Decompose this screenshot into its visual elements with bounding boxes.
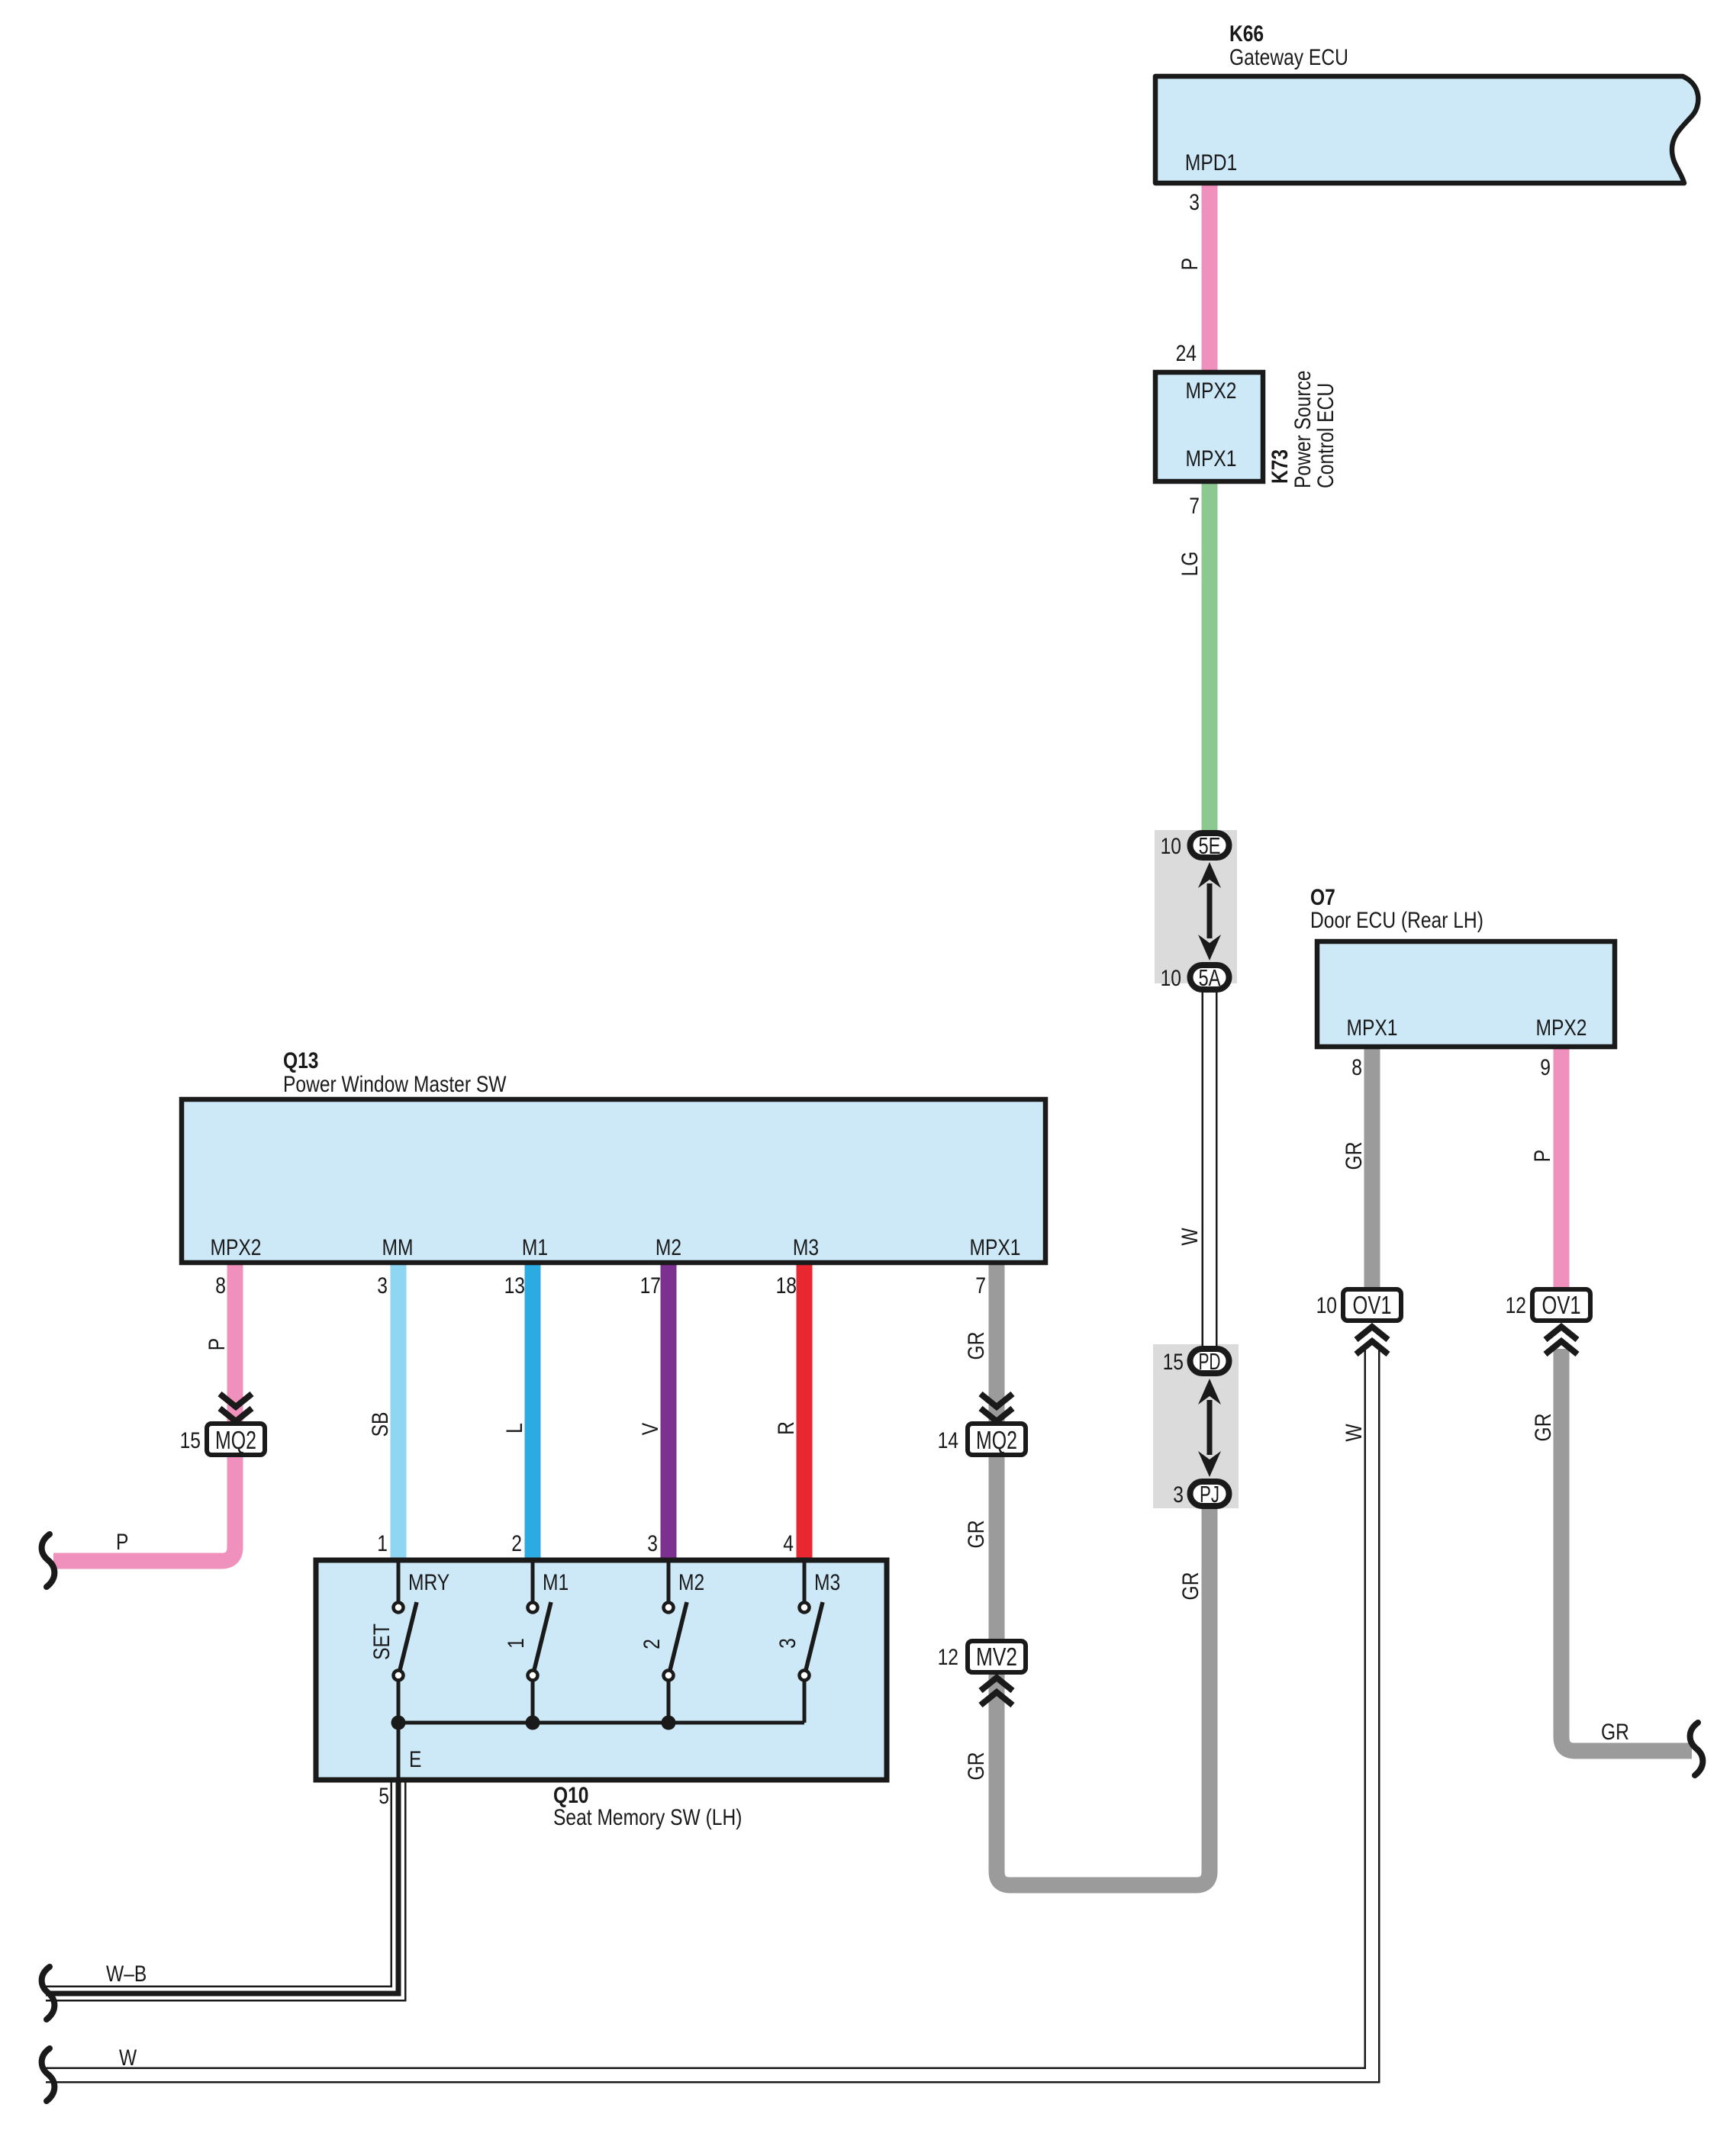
junction block shield PD/PJ bbox=[1153, 1344, 1239, 1508]
svg-text:M3: M3 bbox=[814, 1570, 840, 1595]
svg-text:7: 7 bbox=[1189, 494, 1200, 519]
svg-text:Power Window Master SW: Power Window Master SW bbox=[283, 1072, 507, 1097]
ECU O7 Door ECU (Rear LH) bbox=[1310, 885, 1615, 1047]
svg-text:MQ2: MQ2 bbox=[976, 1426, 1017, 1454]
svg-text:PJ: PJ bbox=[1200, 1481, 1219, 1508]
svg-text:8: 8 bbox=[215, 1273, 226, 1298]
connector MQ2 pin 14 bbox=[938, 1424, 1026, 1455]
svg-text:1: 1 bbox=[504, 1638, 529, 1649]
svg-text:1: 1 bbox=[377, 1531, 388, 1556]
svg-text:3: 3 bbox=[377, 1273, 388, 1298]
svg-text:24: 24 bbox=[1176, 341, 1197, 366]
svg-text:P: P bbox=[1177, 258, 1203, 270]
ECU K66 Gateway ECU (box with torn right edge) bbox=[1155, 21, 1698, 183]
svg-text:10: 10 bbox=[1161, 966, 1181, 991]
break squiggle W-B left bbox=[42, 1967, 55, 2019]
svg-text:3: 3 bbox=[647, 1531, 658, 1556]
svg-text:GR: GR bbox=[964, 1520, 989, 1549]
wire GR junction PJ-3 down, left, up to MV2 (U path) bbox=[997, 1263, 1210, 1885]
svg-text:MPX1: MPX1 bbox=[1186, 446, 1237, 471]
connector OV1 pin 10 bbox=[1316, 1289, 1401, 1321]
double-head arrow between PD and PJ bbox=[1198, 1379, 1221, 1477]
wire W junction 5A to junction PD bbox=[1202, 986, 1218, 1352]
svg-text:MV2: MV2 bbox=[976, 1643, 1017, 1671]
svg-text:MM: MM bbox=[382, 1235, 414, 1260]
svg-text:GR: GR bbox=[1178, 1572, 1203, 1601]
svg-text:12: 12 bbox=[1506, 1293, 1526, 1318]
break squiggle P left bbox=[42, 1534, 55, 1587]
svg-text:O7: O7 bbox=[1310, 885, 1335, 910]
svg-text:3: 3 bbox=[1189, 190, 1200, 215]
svg-text:14: 14 bbox=[938, 1428, 958, 1453]
svg-text:MPX1: MPX1 bbox=[970, 1235, 1021, 1260]
svg-text:13: 13 bbox=[504, 1273, 525, 1298]
svg-text:K73: K73 bbox=[1268, 449, 1293, 484]
chevrons out of MV2 (pointing up) bbox=[981, 1678, 1013, 1705]
svg-text:MPX1: MPX1 bbox=[1347, 1015, 1398, 1041]
svg-text:E: E bbox=[409, 1747, 421, 1772]
wire W-B Q10 E-5 down and left to break bbox=[46, 1780, 398, 1993]
ECU Q13 Power Window Master SW bbox=[182, 1048, 1045, 1263]
connector oval PJ pin 3 bbox=[1173, 1481, 1229, 1508]
svg-text:5A: 5A bbox=[1199, 964, 1221, 991]
switch 1 (M1) bbox=[504, 1560, 569, 1723]
chevrons into MQ2 pin 14 (pointing down) bbox=[981, 1394, 1013, 1421]
svg-text:MRY: MRY bbox=[408, 1570, 449, 1595]
svg-text:OV1: OV1 bbox=[1353, 1291, 1392, 1319]
break squiggle W bottom left bbox=[42, 2048, 55, 2101]
svg-text:P: P bbox=[116, 1530, 128, 1555]
double-head arrow between 5E and 5A bbox=[1198, 862, 1221, 961]
svg-text:Power Source: Power Source bbox=[1290, 371, 1316, 489]
junction node at M2 bbox=[662, 1716, 676, 1730]
chevrons out of OV1 pin 12 (pointing up) bbox=[1545, 1327, 1577, 1354]
switch assembly Q10 Seat Memory SW (LH) bbox=[316, 1560, 887, 1830]
wire SB Q13 MM-3 to Q10 pin1 bbox=[391, 1263, 407, 1560]
svg-text:W: W bbox=[1342, 1424, 1367, 1442]
svg-text:Seat Memory SW (LH): Seat Memory SW (LH) bbox=[553, 1805, 742, 1830]
svg-text:5E: 5E bbox=[1199, 832, 1221, 859]
svg-text:W: W bbox=[119, 2045, 137, 2071]
svg-text:MQ2: MQ2 bbox=[215, 1426, 256, 1454]
internal bus wire E bbox=[398, 1721, 804, 1725]
svg-text:GR: GR bbox=[964, 1332, 989, 1360]
junction node at M1 bbox=[526, 1716, 540, 1730]
svg-text:MPX2: MPX2 bbox=[1186, 378, 1237, 404]
svg-text:GR: GR bbox=[964, 1752, 989, 1781]
svg-text:M2: M2 bbox=[678, 1570, 704, 1595]
junction block shield 5E/5A bbox=[1155, 830, 1237, 983]
svg-text:GR: GR bbox=[1342, 1142, 1367, 1170]
svg-text:Control ECU: Control ECU bbox=[1313, 383, 1338, 488]
svg-text:P: P bbox=[1530, 1150, 1555, 1162]
svg-text:GR: GR bbox=[1531, 1414, 1556, 1442]
svg-text:8: 8 bbox=[1351, 1055, 1362, 1080]
svg-text:2: 2 bbox=[639, 1639, 665, 1649]
svg-text:15: 15 bbox=[1163, 1350, 1184, 1375]
svg-text:10: 10 bbox=[1161, 834, 1181, 859]
connector OV1 pin 12 bbox=[1506, 1289, 1590, 1321]
svg-text:15: 15 bbox=[180, 1428, 201, 1453]
svg-text:PD: PD bbox=[1199, 1348, 1221, 1375]
wire L Q13 M1-13 to Q10 pin2 bbox=[525, 1263, 541, 1560]
break squiggle GR right bbox=[1690, 1723, 1703, 1775]
svg-text:Gateway ECU: Gateway ECU bbox=[1229, 45, 1348, 70]
svg-text:Q13: Q13 bbox=[283, 1048, 319, 1073]
ECU K73 Power Source Control ECU bbox=[1155, 371, 1338, 489]
wire P Q13 MPX2-8 down through MQ2-15, left to break bbox=[53, 1263, 235, 1561]
wire W OV1-10 down and left to break bbox=[46, 1350, 1372, 2075]
svg-text:OV1: OV1 bbox=[1542, 1291, 1581, 1319]
connector oval 5E pin 10 bbox=[1161, 832, 1229, 859]
svg-text:SET: SET bbox=[369, 1623, 395, 1660]
svg-text:K66: K66 bbox=[1229, 21, 1264, 47]
wire P K66 MPD1-3 to K73 MPX2-24 bbox=[1202, 185, 1218, 372]
svg-text:M2: M2 bbox=[656, 1235, 681, 1260]
svg-text:3: 3 bbox=[775, 1638, 801, 1649]
svg-text:MPD1: MPD1 bbox=[1185, 150, 1237, 175]
svg-text:GR: GR bbox=[1601, 1720, 1629, 1745]
wire R Q13 M3-18 to Q10 pin4 bbox=[797, 1263, 813, 1560]
wire E down to pin 5 bbox=[397, 1723, 401, 1780]
wire GR O7 MPX1-8 to OV1-10 bbox=[1364, 1047, 1380, 1289]
svg-text:18: 18 bbox=[776, 1273, 797, 1298]
wire GR OV1-12 down and right to break bbox=[1561, 1349, 1692, 1751]
svg-text:V: V bbox=[638, 1423, 663, 1435]
svg-text:L: L bbox=[502, 1423, 527, 1434]
svg-text:4: 4 bbox=[783, 1531, 794, 1556]
connector MV2 pin 12 bbox=[938, 1641, 1026, 1672]
svg-text:W: W bbox=[1177, 1228, 1203, 1246]
svg-text:2: 2 bbox=[511, 1531, 522, 1556]
switch 3 (M3) bbox=[775, 1560, 840, 1723]
connector oval 5A pin 10 bbox=[1161, 964, 1229, 991]
svg-text:W–B: W–B bbox=[106, 1961, 147, 1987]
svg-text:R: R bbox=[774, 1421, 799, 1435]
connector oval PD pin 15 bbox=[1163, 1348, 1229, 1375]
svg-text:5: 5 bbox=[379, 1784, 389, 1809]
svg-text:9: 9 bbox=[1540, 1055, 1551, 1080]
wire LG K73 MPX1-7 to junction 5E bbox=[1202, 481, 1218, 839]
switch 2 (M2) bbox=[639, 1560, 704, 1723]
svg-text:Door ECU (Rear LH): Door ECU (Rear LH) bbox=[1310, 908, 1483, 933]
svg-text:12: 12 bbox=[938, 1645, 958, 1670]
chevrons out of OV1 pin 10 (pointing up) bbox=[1356, 1327, 1388, 1354]
wire P O7 MPX2-9 to OV1-12 bbox=[1554, 1047, 1570, 1289]
connector MQ2 pin 15 bbox=[180, 1424, 265, 1455]
svg-text:M1: M1 bbox=[543, 1570, 569, 1595]
wire V Q13 M2-17 to Q10 pin3 bbox=[661, 1263, 677, 1560]
svg-text:10: 10 bbox=[1316, 1293, 1337, 1318]
svg-text:P: P bbox=[205, 1338, 230, 1350]
svg-text:17: 17 bbox=[640, 1273, 661, 1298]
junction node at SET bbox=[391, 1716, 406, 1730]
svg-text:MPX2: MPX2 bbox=[211, 1235, 262, 1260]
svg-text:M3: M3 bbox=[793, 1235, 819, 1260]
svg-text:SB: SB bbox=[368, 1412, 393, 1437]
svg-text:3: 3 bbox=[1173, 1482, 1184, 1508]
svg-text:7: 7 bbox=[975, 1273, 986, 1298]
svg-text:LG: LG bbox=[1177, 552, 1203, 577]
svg-text:M1: M1 bbox=[522, 1235, 548, 1260]
chevrons into MQ2 pin 15 (pointing down) bbox=[220, 1394, 252, 1421]
svg-text:MPX2: MPX2 bbox=[1536, 1015, 1587, 1041]
switch SET (MRY) bbox=[369, 1560, 449, 1723]
